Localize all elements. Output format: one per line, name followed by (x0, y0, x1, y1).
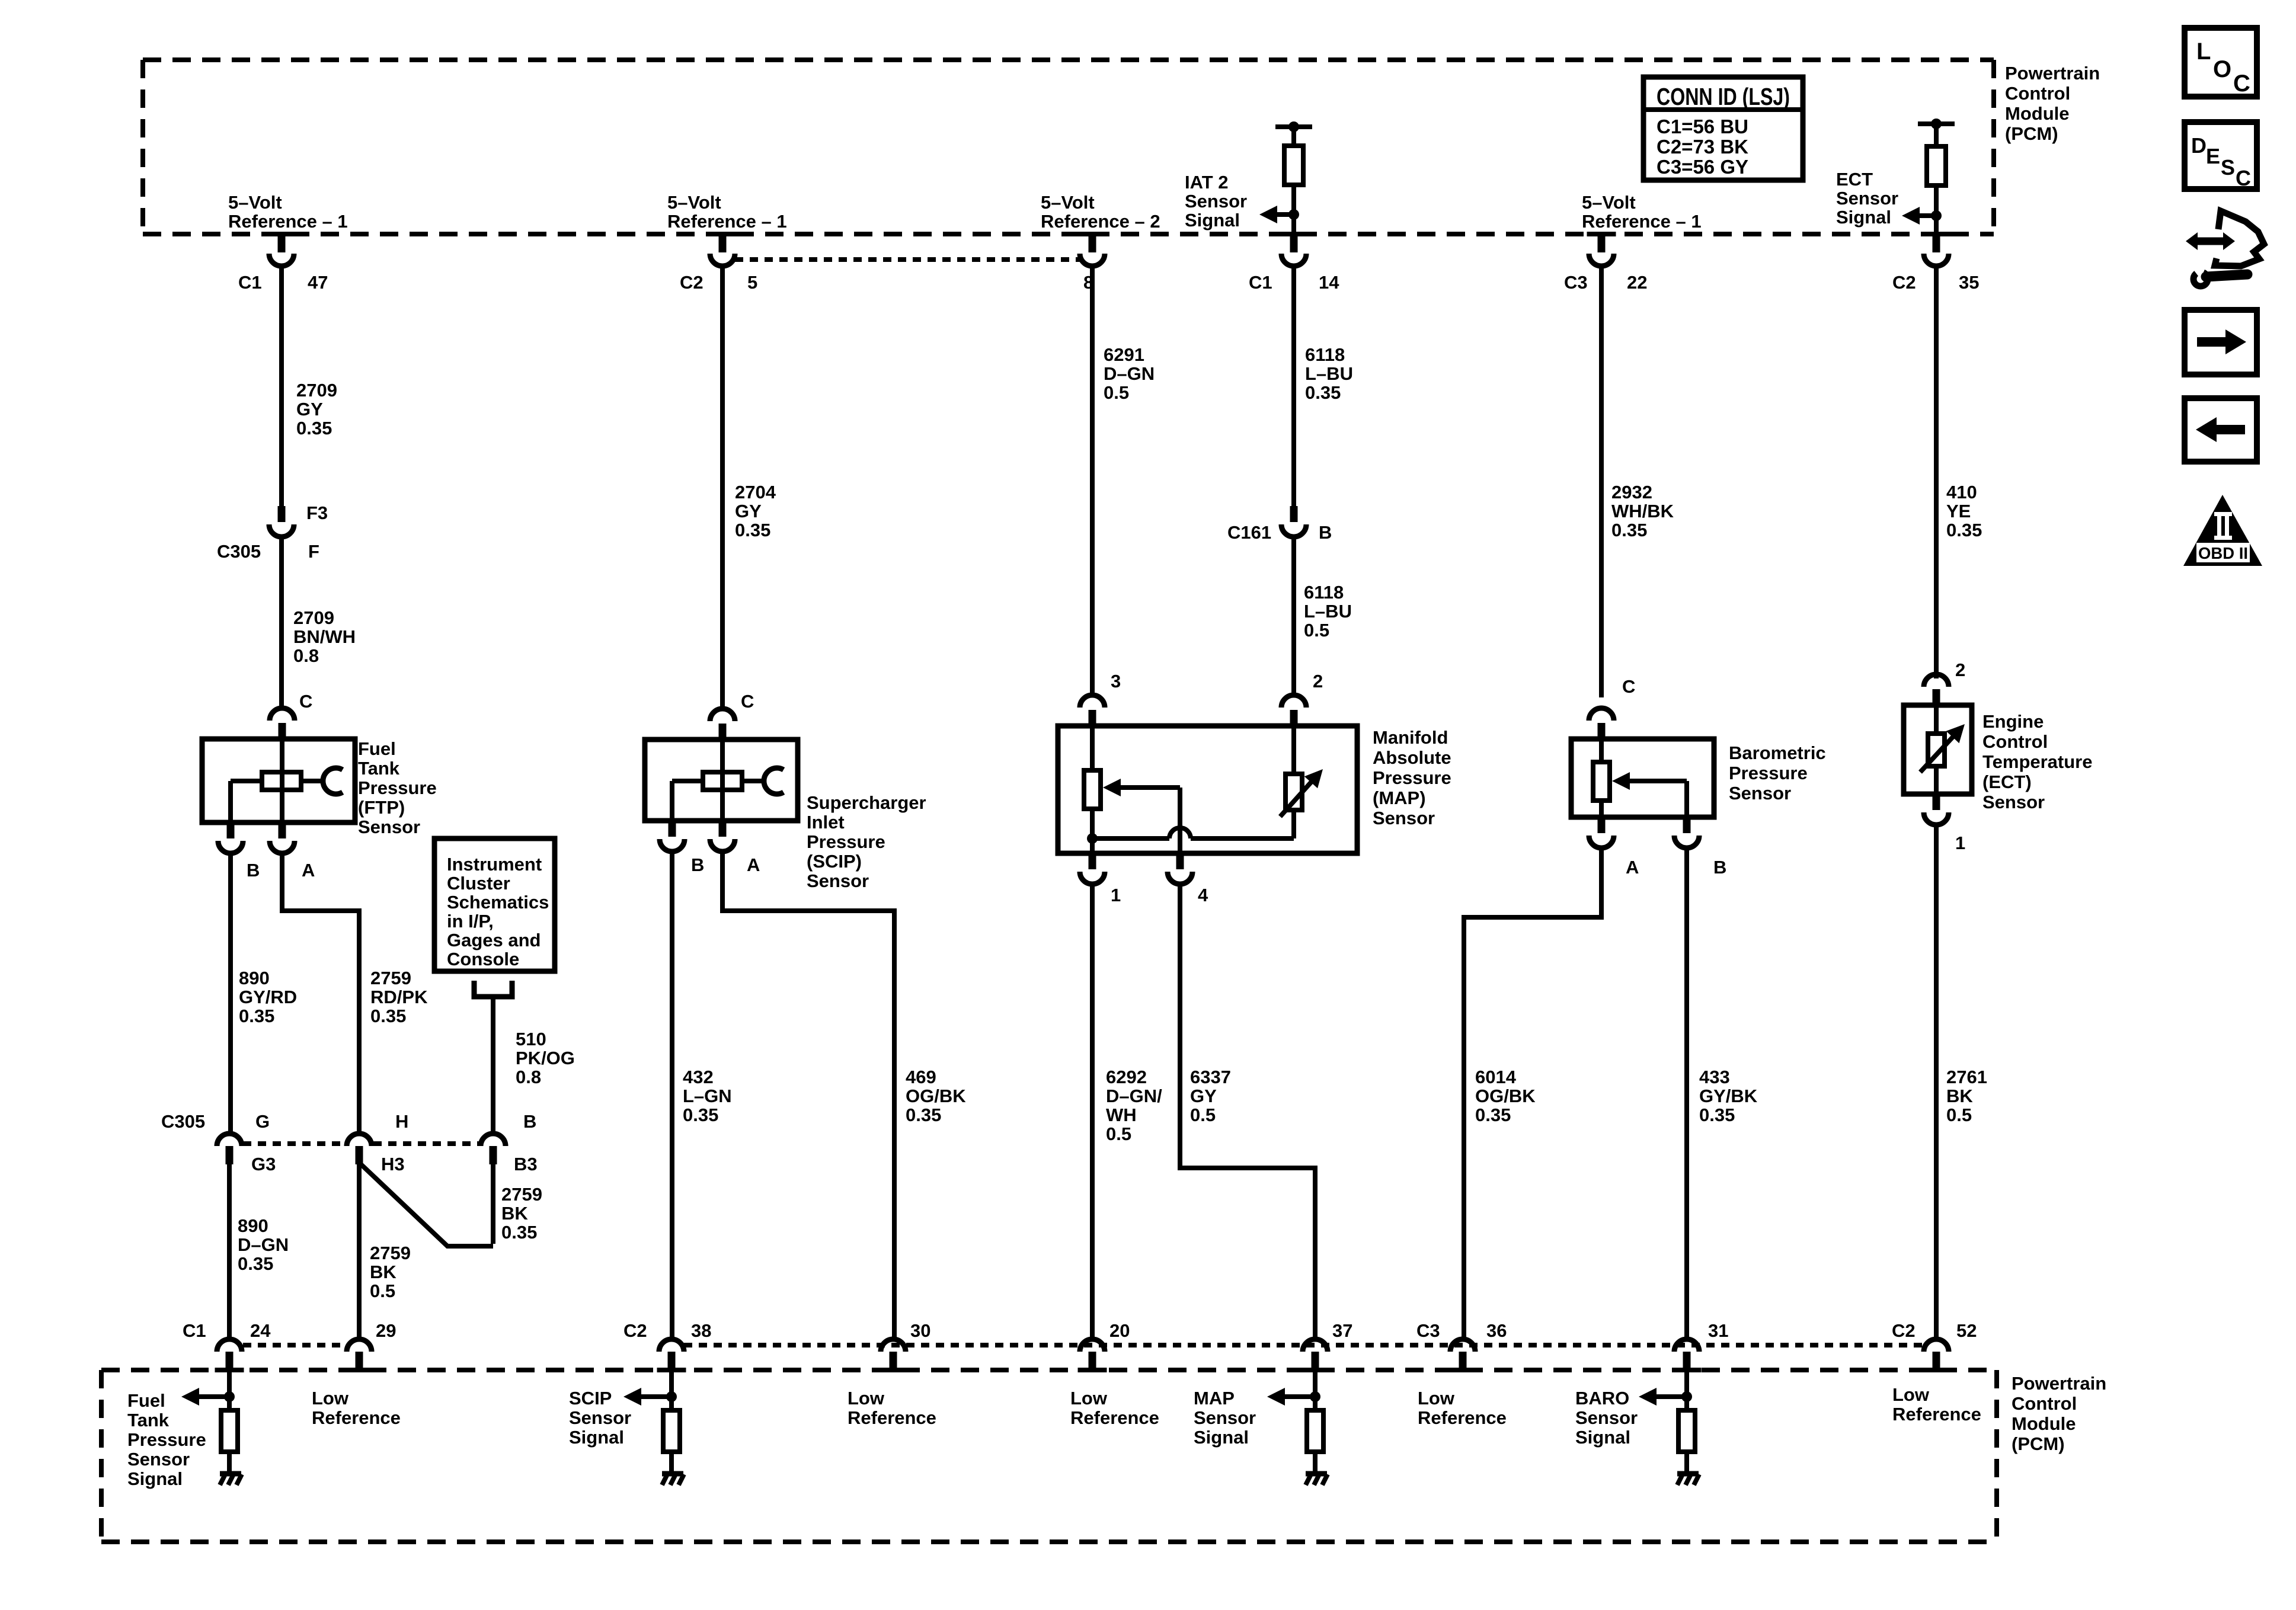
svg-text:0.5: 0.5 (1304, 620, 1329, 641)
svg-text:35: 35 (1959, 272, 1979, 293)
svg-text:Sensor: Sensor (1575, 1407, 1638, 1428)
svg-text:C: C (2233, 71, 2250, 97)
svg-text:(PCM): (PCM) (2012, 1433, 2065, 1454)
svg-text:Sensor: Sensor (1194, 1407, 1256, 1428)
svg-text:BK: BK (1946, 1086, 1973, 1106)
svg-text:3: 3 (1111, 671, 1121, 692)
svg-text:Reference: Reference (1892, 1404, 1981, 1425)
svg-text:6118: 6118 (1305, 344, 1345, 365)
svg-text:Tank: Tank (127, 1410, 170, 1430)
svg-text:B: B (691, 854, 704, 875)
svg-text:PK/OG: PK/OG (516, 1048, 575, 1068)
svg-text:Low: Low (848, 1388, 885, 1409)
svg-text:O: O (2213, 56, 2231, 82)
svg-text:Engine: Engine (1982, 711, 2044, 732)
svg-text:D–GN: D–GN (238, 1234, 289, 1255)
svg-text:0.5: 0.5 (370, 1281, 395, 1301)
svg-text:Supercharger: Supercharger (807, 792, 926, 813)
svg-text:Reference: Reference (1418, 1407, 1507, 1428)
svg-text:WH/BK: WH/BK (1611, 501, 1674, 521)
svg-text:6292: 6292 (1106, 1067, 1147, 1087)
svg-text:5–Volt: 5–Volt (228, 192, 282, 213)
svg-text:H: H (395, 1111, 408, 1132)
svg-text:C1: C1 (238, 272, 262, 293)
svg-text:RD/PK: RD/PK (370, 987, 428, 1007)
svg-text:Signal: Signal (1836, 207, 1891, 228)
svg-text:5–Volt: 5–Volt (1041, 192, 1095, 213)
svg-text:C2=73 BK: C2=73 BK (1657, 136, 1748, 158)
svg-text:GY: GY (296, 399, 323, 420)
svg-text:890: 890 (239, 968, 270, 988)
svg-text:Absolute: Absolute (1373, 747, 1451, 768)
svg-text:432: 432 (683, 1067, 714, 1087)
svg-text:Pressure: Pressure (1729, 763, 1808, 783)
svg-text:Gages and: Gages and (447, 930, 541, 950)
svg-text:Pressure: Pressure (807, 831, 885, 852)
svg-text:Module: Module (2005, 103, 2070, 124)
svg-text:A: A (1626, 857, 1639, 878)
svg-text:F: F (308, 541, 319, 562)
svg-text:L–BU: L–BU (1304, 601, 1352, 622)
svg-text:38: 38 (691, 1320, 711, 1341)
svg-text:Instrument: Instrument (447, 854, 542, 875)
svg-text:0.5: 0.5 (1104, 382, 1129, 403)
svg-text:E: E (2206, 144, 2220, 168)
svg-text:(PCM): (PCM) (2005, 123, 2058, 144)
svg-text:C3=56 GY: C3=56 GY (1657, 156, 1748, 178)
svg-text:MAP: MAP (1194, 1388, 1235, 1409)
svg-text:C: C (2236, 166, 2251, 190)
svg-text:52: 52 (1956, 1320, 1977, 1341)
svg-text:0.35: 0.35 (501, 1222, 537, 1243)
svg-text:B: B (1319, 522, 1332, 543)
svg-text:C: C (1622, 676, 1635, 697)
svg-text:2709: 2709 (293, 607, 334, 628)
svg-text:D–GN/: D–GN/ (1106, 1086, 1162, 1106)
svg-text:2: 2 (1955, 660, 1965, 680)
svg-text:0.5: 0.5 (1106, 1124, 1131, 1144)
svg-text:2759: 2759 (370, 968, 411, 988)
svg-text:C1=56 BU: C1=56 BU (1657, 116, 1748, 137)
svg-text:0.8: 0.8 (516, 1067, 541, 1087)
svg-text:(FTP): (FTP) (358, 797, 405, 818)
svg-text:C2: C2 (623, 1320, 647, 1341)
svg-text:6291: 6291 (1104, 344, 1144, 365)
svg-text:Signal: Signal (569, 1427, 624, 1448)
svg-text:Reference – 2: Reference – 2 (1041, 211, 1160, 232)
svg-text:G: G (255, 1111, 270, 1132)
svg-text:0.35: 0.35 (1305, 382, 1341, 403)
svg-text:Signal: Signal (1185, 210, 1240, 231)
svg-text:Temperature: Temperature (1982, 751, 2093, 772)
svg-text:1: 1 (1111, 885, 1121, 905)
svg-text:Cluster: Cluster (447, 873, 510, 894)
svg-text:410: 410 (1946, 482, 1977, 502)
svg-text:2932: 2932 (1611, 482, 1652, 502)
svg-text:890: 890 (238, 1215, 268, 1236)
svg-text:20: 20 (1109, 1320, 1130, 1341)
svg-text:Sensor: Sensor (1185, 191, 1247, 212)
svg-text:D–GN: D–GN (1104, 363, 1155, 384)
svg-text:14: 14 (1319, 272, 1339, 293)
svg-text:36: 36 (1486, 1320, 1507, 1341)
svg-text:Low: Low (1070, 1388, 1108, 1409)
svg-text:0.5: 0.5 (1190, 1105, 1216, 1125)
svg-text:5: 5 (747, 272, 757, 293)
svg-text:Barometric: Barometric (1729, 742, 1826, 763)
svg-text:Low: Low (1418, 1388, 1455, 1409)
svg-text:B: B (1713, 857, 1726, 878)
svg-text:C305: C305 (217, 541, 261, 562)
svg-text:433: 433 (1699, 1067, 1730, 1087)
svg-text:C3: C3 (1416, 1320, 1440, 1341)
svg-text:C1: C1 (1249, 272, 1272, 293)
svg-text:Control: Control (2012, 1393, 2077, 1414)
svg-text:Signal: Signal (127, 1468, 183, 1489)
svg-text:0.35: 0.35 (296, 418, 332, 438)
svg-text:Reference – 1: Reference – 1 (1582, 211, 1702, 232)
svg-text:2709: 2709 (296, 380, 337, 401)
svg-text:0.5: 0.5 (1946, 1105, 1972, 1125)
svg-text:Pressure: Pressure (1373, 767, 1451, 788)
svg-text:Control: Control (1982, 731, 2048, 752)
svg-text:IAT 2: IAT 2 (1185, 172, 1229, 193)
svg-text:B3: B3 (514, 1154, 538, 1174)
svg-text:6337: 6337 (1190, 1067, 1231, 1087)
svg-text:C305: C305 (161, 1111, 205, 1132)
svg-text:0.35: 0.35 (1699, 1105, 1735, 1125)
svg-text:1: 1 (1955, 833, 1965, 853)
svg-text:GY: GY (735, 501, 762, 521)
svg-text:6118: 6118 (1304, 582, 1344, 603)
svg-text:29: 29 (376, 1320, 396, 1341)
svg-text:47: 47 (308, 272, 328, 293)
svg-text:Control: Control (2005, 83, 2070, 104)
svg-text:CONN ID (LSJ): CONN ID (LSJ) (1657, 83, 1790, 110)
svg-text:4: 4 (1198, 885, 1208, 905)
svg-text:A: A (747, 854, 760, 875)
svg-text:A: A (302, 860, 315, 881)
svg-text:510: 510 (516, 1029, 546, 1049)
svg-text:0.35: 0.35 (370, 1006, 406, 1026)
svg-text:C: C (299, 691, 312, 712)
svg-text:SCIP: SCIP (569, 1388, 612, 1409)
svg-text:Manifold: Manifold (1373, 727, 1448, 748)
svg-text:S: S (2221, 155, 2235, 180)
svg-text:5–Volt: 5–Volt (1582, 192, 1636, 213)
svg-text:OBD II: OBD II (2198, 544, 2248, 562)
svg-text:BK: BK (370, 1262, 396, 1282)
svg-text:Signal: Signal (1575, 1427, 1630, 1448)
svg-text:D: D (2191, 133, 2207, 158)
svg-text:ECT: ECT (1836, 169, 1873, 190)
svg-text:WH: WH (1106, 1105, 1137, 1125)
svg-text:Low: Low (312, 1388, 349, 1409)
svg-text:Schematics: Schematics (447, 892, 549, 913)
svg-text:Sensor: Sensor (127, 1449, 190, 1470)
svg-text:0.35: 0.35 (1611, 520, 1647, 540)
svg-text:BK: BK (501, 1203, 528, 1224)
svg-text:5–Volt: 5–Volt (667, 192, 721, 213)
svg-text:0.35: 0.35 (238, 1253, 273, 1274)
svg-text:C1: C1 (183, 1320, 206, 1341)
svg-text:0.35: 0.35 (239, 1006, 274, 1026)
svg-text:in I/P,: in I/P, (447, 911, 494, 932)
svg-text:GY: GY (1190, 1086, 1217, 1106)
svg-text:2: 2 (1313, 671, 1323, 692)
svg-text:Powertrain: Powertrain (2012, 1373, 2106, 1394)
svg-text:GY/BK: GY/BK (1699, 1086, 1758, 1106)
svg-text:Powertrain: Powertrain (2005, 63, 2100, 84)
svg-text:2704: 2704 (735, 482, 776, 502)
svg-text:37: 37 (1332, 1320, 1352, 1341)
svg-text:Sensor: Sensor (569, 1407, 631, 1428)
svg-text:Sensor: Sensor (1373, 808, 1435, 828)
svg-text:OG/BK: OG/BK (1475, 1086, 1536, 1106)
svg-text:Console: Console (447, 949, 519, 969)
svg-text:Fuel: Fuel (127, 1390, 165, 1411)
svg-text:Low: Low (1892, 1384, 1930, 1405)
svg-text:Fuel: Fuel (358, 738, 396, 759)
svg-text:Reference: Reference (1070, 1407, 1159, 1428)
svg-text:H3: H3 (381, 1154, 405, 1174)
svg-text:B: B (247, 860, 260, 881)
svg-text:Pressure: Pressure (358, 777, 437, 798)
svg-text:0.35: 0.35 (735, 520, 770, 540)
svg-text:C161: C161 (1227, 522, 1271, 543)
svg-text:L: L (2196, 39, 2211, 65)
svg-text:OG/BK: OG/BK (906, 1086, 966, 1106)
svg-text:C: C (741, 691, 754, 712)
svg-text:22: 22 (1627, 272, 1647, 293)
svg-text:BARO: BARO (1575, 1388, 1629, 1409)
svg-text:Reference – 1: Reference – 1 (667, 211, 787, 232)
svg-text:0.8: 0.8 (293, 645, 319, 666)
svg-text:(ECT): (ECT) (1982, 772, 2032, 792)
svg-text:Inlet: Inlet (807, 812, 845, 833)
svg-text:Reference: Reference (848, 1407, 936, 1428)
svg-text:Sensor: Sensor (807, 870, 869, 891)
svg-text:F3: F3 (306, 502, 328, 523)
svg-text:G3: G3 (251, 1154, 276, 1174)
svg-text:Module: Module (2012, 1413, 2076, 1434)
svg-text:Sensor: Sensor (358, 817, 420, 837)
svg-text:YE: YE (1946, 501, 1971, 521)
svg-text:0.35: 0.35 (1946, 520, 1982, 540)
svg-text:(MAP): (MAP) (1373, 788, 1426, 808)
svg-text:2759: 2759 (370, 1243, 411, 1263)
svg-text:BN/WH: BN/WH (293, 626, 356, 647)
svg-text:469: 469 (906, 1067, 936, 1087)
svg-text:L–BU: L–BU (1305, 363, 1353, 384)
svg-text:Sensor: Sensor (1982, 792, 2045, 812)
svg-text:Sensor: Sensor (1836, 188, 1898, 209)
svg-text:B: B (523, 1111, 536, 1132)
svg-text:L–GN: L–GN (683, 1086, 732, 1106)
svg-text:2761: 2761 (1946, 1067, 1987, 1087)
svg-text:GY/RD: GY/RD (239, 987, 297, 1007)
svg-text:31: 31 (1708, 1320, 1728, 1341)
svg-text:Tank: Tank (358, 758, 400, 779)
svg-text:2759: 2759 (501, 1184, 542, 1205)
svg-text:Pressure: Pressure (127, 1429, 206, 1450)
svg-text:0.35: 0.35 (906, 1105, 941, 1125)
svg-text:(SCIP): (SCIP) (807, 851, 862, 872)
svg-text:Reference – 1: Reference – 1 (228, 211, 348, 232)
svg-text:C2: C2 (680, 272, 703, 293)
svg-text:30: 30 (910, 1320, 930, 1341)
svg-text:Reference: Reference (312, 1407, 401, 1428)
svg-text:C2: C2 (1892, 1320, 1916, 1341)
svg-text:24: 24 (250, 1320, 271, 1341)
svg-text:Sensor: Sensor (1729, 783, 1791, 804)
svg-text:Signal: Signal (1194, 1427, 1249, 1448)
svg-text:0.35: 0.35 (1475, 1105, 1511, 1125)
svg-text:C3: C3 (1564, 272, 1588, 293)
svg-text:0.35: 0.35 (683, 1105, 718, 1125)
svg-text:6014: 6014 (1475, 1067, 1517, 1087)
svg-text:C2: C2 (1892, 272, 1916, 293)
